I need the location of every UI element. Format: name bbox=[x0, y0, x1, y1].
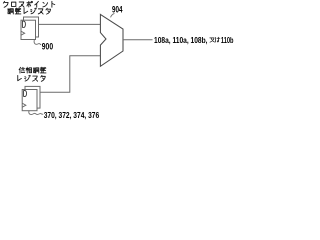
svg-text:110b: 110b bbox=[221, 35, 234, 45]
svg-text:904: 904 bbox=[112, 5, 123, 15]
output label は bbox=[215, 37, 219, 42]
wire register900 to mux bbox=[39, 23, 101, 25]
label: クロスポイント (crosspoint) line 1 bbox=[3, 1, 54, 7]
wire register370 to mux (staircase) bbox=[40, 56, 100, 93]
svg-text:900: 900 bbox=[42, 41, 53, 51]
register 370 clock triangle bbox=[22, 103, 26, 107]
register 900 D label bbox=[22, 21, 25, 27]
leader 904 bbox=[111, 13, 115, 17]
leader squiggle to 900 bbox=[34, 40, 41, 45]
label: 調整レジスタ (adjustment register) line 2 bbox=[8, 8, 51, 14]
svg-text:108a, 110a, 108b,: 108a, 110a, 108b, bbox=[154, 35, 208, 45]
label: 位相調整 (phase adjustment) line 1 bbox=[19, 67, 46, 73]
output label 又 bbox=[210, 37, 220, 42]
register 900 clock triangle bbox=[21, 31, 25, 35]
svg-text:370, 372, 374, 376: 370, 372, 374, 376 bbox=[44, 110, 100, 120]
register 900 front box bbox=[21, 20, 36, 39]
register 900 back box bbox=[24, 17, 39, 37]
register 370 front box bbox=[22, 90, 37, 111]
output wire bbox=[123, 39, 153, 41]
label: レジスタ line 2 bbox=[18, 75, 46, 81]
mux 904 body bbox=[100, 14, 123, 66]
leader squiggle to 370 bbox=[29, 111, 43, 115]
register 370 D label bbox=[24, 90, 27, 96]
register 370 back box bbox=[25, 86, 40, 108]
